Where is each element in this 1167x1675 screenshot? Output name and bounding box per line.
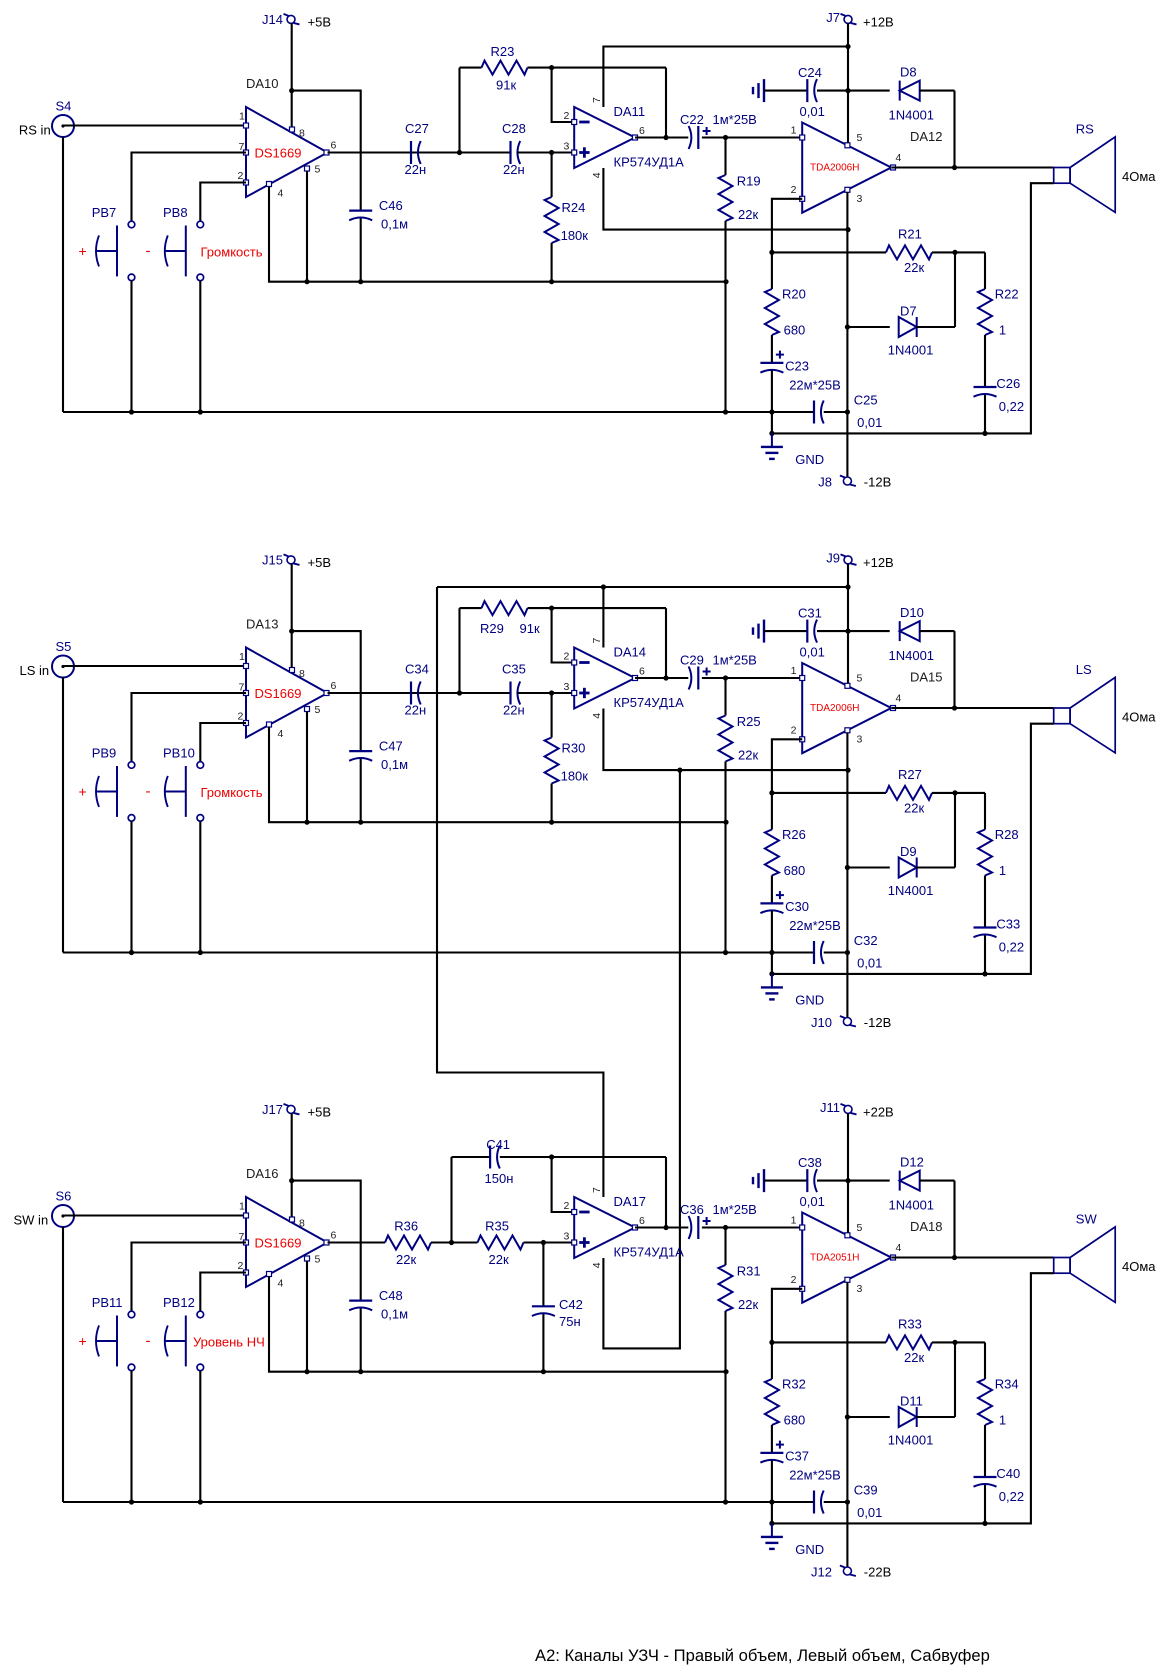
svg-text:3: 3 (857, 734, 863, 746)
svg-text:22к: 22к (904, 260, 924, 275)
svg-text:КР574УД1А: КР574УД1А (614, 154, 685, 169)
junction C46-bus (358, 279, 363, 284)
resistor R21 22к (772, 251, 886, 253)
svg-text:+12В: +12В (863, 15, 894, 30)
svg-text:R19: R19 (737, 174, 761, 189)
svg-text:-: - (146, 1333, 151, 1350)
resistor R36 22к (385, 1236, 431, 1250)
pin 3 opamp (572, 150, 577, 155)
svg-text:4: 4 (896, 693, 902, 705)
wire ground bus (63, 951, 814, 953)
svg-text:22к: 22к (396, 1252, 416, 1267)
junction gnd drop (769, 971, 774, 976)
svg-text:6: 6 (639, 1215, 645, 1227)
pin 3 TDA (845, 728, 850, 733)
pin 2 TDA (800, 1286, 805, 1291)
power jack J17 +5V (287, 1105, 295, 1113)
svg-text:GND: GND (795, 993, 824, 1008)
junction R25 DS-bus (723, 820, 728, 825)
power jack J8 -12В (843, 477, 851, 485)
junction rail D7 (845, 1414, 850, 1419)
junction PB9 ground (129, 950, 134, 955)
svg-text:22м*25В: 22м*25В (789, 378, 841, 393)
wire C46 to bus (360, 219, 362, 282)
svg-text:7: 7 (591, 97, 603, 103)
svg-text:D10: D10 (900, 605, 924, 620)
resistor R26 680 (771, 793, 773, 830)
pin 3 TDA (845, 187, 850, 192)
junction C46-bus (358, 1369, 363, 1374)
svg-text:R31: R31 (737, 1264, 761, 1279)
pin 2 opamp (572, 660, 577, 665)
junction D7 top (952, 250, 957, 255)
wire +V rail (847, 1113, 849, 1233)
svg-text:C47: C47 (379, 739, 403, 754)
svg-text:GND: GND (795, 1542, 824, 1557)
pin 1 TDA (800, 1225, 805, 1230)
svg-text:150н: 150н (485, 1171, 514, 1186)
digital pot DA13 DS1669 (246, 648, 328, 738)
svg-text:+: + (79, 1333, 87, 1349)
svg-text:22н: 22н (405, 703, 427, 718)
svg-text:PB10: PB10 (163, 746, 195, 761)
pushbutton PB10 (197, 762, 204, 769)
svg-text:КР574УД1А: КР574УД1А (614, 695, 685, 710)
junction PB11 ground (129, 1499, 134, 1504)
resistor R30 180к (551, 693, 553, 738)
wire +V rail (847, 23, 849, 143)
junction rail Cdm (845, 1499, 850, 1504)
wire feedback drop (665, 68, 667, 138)
junction pin4 rail (845, 227, 850, 232)
svg-text:C35: C35 (502, 662, 526, 677)
svg-text:C37: C37 (785, 1449, 809, 1464)
power jack J15 +5V (287, 556, 295, 564)
svg-text:DS1669: DS1669 (255, 686, 302, 701)
svg-text:6: 6 (331, 140, 337, 152)
svg-text:C39: C39 (854, 1483, 878, 1498)
junction R21 node (769, 790, 774, 795)
svg-text:DA16: DA16 (246, 1166, 279, 1181)
svg-text:R36: R36 (394, 1219, 418, 1234)
svg-text:4: 4 (278, 728, 284, 740)
wire minus input leg (552, 1157, 575, 1212)
junction +5V branch (289, 629, 294, 634)
resistor R29 91к feedback (460, 607, 482, 609)
pin 7 DS (244, 150, 249, 155)
wire pin7 to PB+ (132, 1243, 247, 1312)
junction R19 ground (723, 409, 728, 414)
svg-text:0,1м: 0,1м (381, 217, 408, 232)
svg-text:C31: C31 (798, 606, 822, 621)
speaker SW 4Ома (1054, 1258, 1070, 1274)
capacitor C48 0,1м (349, 1299, 372, 1301)
pin 8 DS (290, 1217, 295, 1222)
pin 2 TDA (800, 196, 805, 201)
input jack S5 (52, 656, 74, 678)
svg-text:R25: R25 (737, 714, 761, 729)
pin 1 DS (244, 1213, 249, 1218)
svg-text:22к: 22к (904, 801, 924, 816)
capacitor C24 0,01 decoupling (763, 79, 765, 102)
resistor R25 22к (724, 678, 726, 716)
wire PB12 to ground bus (199, 1371, 201, 1502)
svg-text:-22В: -22В (864, 1565, 891, 1580)
capacitor C37 22м*25В (760, 1452, 783, 1454)
svg-text:2: 2 (791, 725, 797, 737)
svg-text:J11: J11 (820, 1100, 840, 1115)
svg-text:C26: C26 (996, 376, 1020, 391)
pin 5 TDA (845, 1233, 850, 1238)
wire Cdm to rail (824, 1501, 848, 1503)
pin 4 TDA (891, 706, 896, 711)
wire pin2 to PB- (200, 183, 246, 222)
capacitor C31 0,01 decoupling (763, 620, 765, 643)
input jack S4 (52, 115, 74, 137)
op-amp DA14 КР574УД1А (574, 648, 635, 709)
pin 1 TDA (800, 676, 805, 681)
junction Cz ground (982, 431, 987, 436)
pin 4 DS (267, 182, 272, 187)
junction R21 node (769, 1340, 774, 1345)
capacitor C47 0,1м (349, 750, 372, 752)
junction rail D7 (845, 865, 850, 870)
svg-text:R28: R28 (995, 827, 1019, 842)
junction R25 (723, 675, 728, 680)
svg-text:C29: C29 (680, 653, 704, 668)
capacitor C26 0,22 zobel (974, 386, 997, 388)
junction R21 node (769, 250, 774, 255)
wire TDA out to speaker (891, 1256, 1053, 1258)
svg-text:C41: C41 (486, 1137, 510, 1152)
diode D7 1N4001 flyback low (848, 326, 890, 328)
svg-text:D7: D7 (900, 304, 917, 319)
svg-text:3: 3 (564, 681, 570, 693)
junction R24 bus (549, 279, 554, 284)
resistor R24 180к (551, 153, 553, 198)
svg-text:3: 3 (857, 1283, 863, 1295)
junction D out (952, 705, 957, 710)
pin 7 DS (244, 691, 249, 696)
pin 4 TDA (891, 165, 896, 170)
wire R36 to R35 (431, 1241, 478, 1243)
svg-text:0,22: 0,22 (999, 940, 1024, 955)
svg-text:DA17: DA17 (614, 1194, 647, 1209)
svg-text:C48: C48 (379, 1288, 403, 1303)
junction PB10 ground (198, 950, 203, 955)
svg-text:J17: J17 (262, 1102, 283, 1117)
wire TDA out to speaker (891, 707, 1053, 709)
svg-text:7: 7 (239, 1231, 245, 1243)
svg-text:22к: 22к (489, 1252, 509, 1267)
svg-text:22н: 22н (405, 162, 427, 177)
svg-text:8: 8 (299, 128, 305, 140)
junction signal B (541, 1240, 546, 1245)
pin 7 DS (244, 1240, 249, 1245)
svg-text:4Ома: 4Ома (1122, 1259, 1156, 1274)
svg-text:0,1м: 0,1м (381, 757, 408, 772)
capacitor C25 0,01 decoupling (813, 401, 815, 424)
junction rail C24 (845, 1178, 850, 1183)
pushbutton PB11 (128, 1311, 135, 1318)
svg-text:DS1669: DS1669 (255, 1236, 302, 1251)
pushbutton PB12 (197, 1311, 204, 1318)
wire S5 to DS pin1 (64, 665, 246, 667)
pin 2 DS (244, 1270, 249, 1275)
pin 6 DS (324, 150, 329, 155)
svg-text:C36: C36 (680, 1202, 704, 1217)
resistor R34 1 (984, 1342, 986, 1379)
pushbutton PB8 (197, 221, 204, 228)
svg-text:DS1669: DS1669 (255, 146, 302, 161)
wire -V rail (846, 1282, 848, 1567)
junction D out (952, 1255, 957, 1260)
svg-text:J9: J9 (826, 551, 840, 566)
power jack J12 -22В (843, 1567, 851, 1575)
wire ground bus (63, 1501, 814, 1503)
svg-text:1: 1 (999, 1413, 1006, 1428)
svg-text:R22: R22 (995, 287, 1019, 302)
pin 5 DS (305, 707, 310, 712)
wire +5V to pin8 (291, 1113, 293, 1217)
pin 5 DS (305, 166, 310, 171)
pin 6 opamp (633, 1225, 638, 1230)
svg-text:22м*25В: 22м*25В (789, 918, 841, 933)
power amp DA12 TDA2006H (802, 123, 891, 213)
svg-text:C34: C34 (405, 662, 429, 677)
svg-text:5: 5 (857, 1222, 863, 1234)
svg-text:2: 2 (238, 1260, 244, 1272)
junction feedback minus leg (549, 606, 554, 611)
svg-text:4: 4 (278, 1278, 284, 1290)
svg-text:0,1м: 0,1м (381, 1307, 408, 1322)
capacitor C35 22н (509, 682, 511, 705)
svg-text:680: 680 (784, 323, 806, 338)
resistor R23 91к feedback (460, 67, 482, 69)
wire C2 to opamp + (517, 151, 574, 153)
pushbutton PB9 (128, 762, 135, 769)
power jack J7 +12В (844, 15, 852, 23)
svg-text:-12В: -12В (864, 475, 891, 490)
junction R31 DS-bus (723, 1369, 728, 1374)
svg-text:1N4001: 1N4001 (888, 1433, 934, 1448)
svg-text:J15: J15 (262, 553, 283, 568)
svg-text:J10: J10 (811, 1015, 832, 1030)
svg-text:1N4001: 1N4001 (888, 343, 934, 358)
svg-text:2: 2 (238, 170, 244, 182)
svg-text:Громкость: Громкость (201, 245, 263, 260)
wire C48 to bus (360, 1309, 362, 1372)
svg-text:C30: C30 (785, 899, 809, 914)
wire feedback left leg (458, 608, 460, 693)
wire +5V to pin8 (291, 564, 293, 668)
junction gnd drop (769, 1521, 774, 1526)
svg-text:4: 4 (278, 188, 284, 200)
svg-text:C24: C24 (798, 65, 822, 80)
svg-text:3: 3 (857, 193, 863, 205)
svg-text:C22: C22 (680, 112, 704, 127)
svg-text:R26: R26 (782, 827, 806, 842)
wire feedback to output drop (528, 607, 667, 609)
svg-text:0,22: 0,22 (999, 399, 1024, 414)
svg-text:4: 4 (591, 172, 603, 178)
wire TDA pin2 (772, 199, 802, 253)
capacitor C27 22н (410, 141, 412, 164)
wire speaker return (772, 724, 1054, 974)
capacitor C46 0,1м (349, 210, 372, 212)
ground symbol (771, 1523, 773, 1537)
pin 2 DS (244, 721, 249, 726)
wire C47 to bus (360, 759, 362, 822)
capacitor C34 22н (410, 682, 412, 705)
wire C41 left leg (450, 1157, 452, 1243)
svg-text:LS: LS (1076, 662, 1092, 677)
wire PB8 to ground bus (199, 281, 201, 412)
junction +5V branch (289, 88, 294, 93)
svg-text:680: 680 (784, 1413, 806, 1428)
svg-text:R29: R29 (480, 621, 504, 636)
resistor R20 680 (771, 252, 773, 289)
wire S6 to DS pin1 (64, 1214, 246, 1216)
wire opamp out (635, 677, 688, 679)
diode D10 1N4001 flyback high (848, 630, 890, 632)
svg-text:5: 5 (315, 164, 321, 176)
svg-text:180к: 180к (561, 769, 589, 784)
svg-text:PB11: PB11 (92, 1295, 123, 1310)
junction feedback-output (663, 675, 668, 680)
junction feedback-output (663, 1225, 668, 1230)
pushbutton PB7 (128, 221, 135, 228)
power jack J14 +5V (287, 15, 295, 23)
wire opamp pin7 V+ (603, 47, 848, 108)
pin 4 DS (267, 722, 272, 727)
wire -V rail (846, 192, 848, 477)
wire opamp out (635, 136, 688, 138)
svg-text:C46: C46 (379, 198, 403, 213)
svg-text:C40: C40 (996, 1466, 1020, 1481)
capacitor C29 1м*25В (689, 667, 692, 690)
junction signal B (549, 150, 554, 155)
svg-text:DA13: DA13 (246, 617, 279, 632)
svg-text:4: 4 (896, 152, 902, 164)
svg-text:3: 3 (564, 1231, 570, 1243)
power jack J9 +12В (844, 556, 852, 564)
svg-text:R32: R32 (782, 1377, 806, 1392)
svg-text:C23: C23 (785, 359, 809, 374)
svg-text:LS in: LS in (20, 663, 50, 678)
resistor R33 22к (772, 1341, 886, 1343)
svg-text:8: 8 (299, 1218, 305, 1230)
svg-text:+12В: +12В (863, 555, 894, 570)
svg-text:22н: 22н (503, 703, 525, 718)
svg-text:5: 5 (315, 1254, 321, 1266)
svg-text:7: 7 (239, 682, 245, 694)
junction C41 minus leg (549, 1154, 554, 1159)
svg-text:SW: SW (1076, 1212, 1098, 1227)
svg-text:R30: R30 (562, 741, 586, 756)
svg-text:2: 2 (564, 651, 570, 663)
op-amp DA17 КР574УД1А (574, 1197, 635, 1258)
resistor R22 1 (984, 252, 986, 289)
wire feedback drop (665, 608, 667, 678)
wire +5V branch to C46 (292, 1181, 361, 1301)
wire S6 ground drop (62, 1227, 64, 1502)
pin 6 opamp (633, 676, 638, 681)
junction Cz ground (982, 1521, 987, 1526)
capacitor C38 0,01 decoupling (763, 1169, 765, 1192)
svg-text:2: 2 (791, 184, 797, 196)
svg-text:J7: J7 (826, 10, 840, 25)
junction gnd drop (769, 431, 774, 436)
wire Cc to TDA pin1 (702, 677, 802, 679)
svg-text:5: 5 (315, 704, 321, 716)
input jack S6 (52, 1205, 74, 1227)
svg-text:0,22: 0,22 (999, 1489, 1024, 1504)
svg-text:J8: J8 (818, 475, 832, 490)
wire C41 to output drop (500, 1156, 666, 1158)
wire DS out to C1 (328, 692, 460, 694)
diode D8 1N4001 flyback high (848, 90, 890, 92)
svg-text:GND: GND (795, 452, 824, 467)
power amp DA18 TDA2051H (802, 1213, 891, 1303)
pin 2 opamp (572, 120, 577, 125)
svg-text:+: + (79, 784, 87, 800)
svg-text:180к: 180к (561, 228, 589, 243)
junction C46-bus (358, 820, 363, 825)
wire minus input leg (552, 68, 575, 122)
svg-text:0,01: 0,01 (857, 956, 882, 971)
svg-text:4: 4 (896, 1242, 902, 1254)
wire PB11 to ground bus (130, 1371, 132, 1502)
svg-text:PB9: PB9 (92, 746, 117, 761)
svg-text:22к: 22к (904, 1350, 924, 1365)
wire +12V run to DA17 pin7 (437, 587, 603, 1197)
wire opamp pin7 V+ (602, 587, 604, 648)
svg-text:91к: 91к (520, 621, 540, 636)
junction feedback-output (663, 135, 668, 140)
svg-text:0,01: 0,01 (857, 415, 882, 430)
svg-text:C33: C33 (996, 917, 1020, 932)
svg-text:1N4001: 1N4001 (889, 1198, 935, 1213)
wire TDA out to speaker (891, 166, 1053, 168)
svg-text:91к: 91к (496, 78, 516, 93)
svg-text:+22В: +22В (863, 1105, 894, 1120)
svg-text:-12В: -12В (864, 1015, 891, 1030)
wire DS pin4 drop (269, 727, 726, 822)
diode D9 1N4001 flyback low (848, 866, 890, 868)
svg-text:1: 1 (791, 665, 797, 677)
svg-text:6: 6 (639, 666, 645, 678)
junction +5V branch (289, 1178, 294, 1183)
junction Cf ground (769, 1499, 774, 1504)
svg-text:DA12: DA12 (910, 129, 943, 144)
svg-text:0,01: 0,01 (857, 1505, 882, 1520)
pin 6 DS (324, 691, 329, 696)
junction R31 ground (723, 1499, 728, 1504)
wire pin7 to PB+ (132, 153, 247, 222)
capacitor C23 22м*25В (760, 362, 783, 364)
junction PB12 ground (198, 1499, 203, 1504)
svg-text:1N4001: 1N4001 (888, 883, 934, 898)
pin 4 DS (267, 1272, 272, 1277)
wire S5 ground drop (62, 678, 64, 953)
junction Cz ground (982, 971, 987, 976)
svg-text:8: 8 (299, 668, 305, 680)
pin 5 TDA (845, 683, 850, 688)
wire R35 to opamp + (524, 1241, 575, 1243)
svg-text:S5: S5 (56, 639, 72, 654)
svg-text:S4: S4 (56, 99, 72, 114)
